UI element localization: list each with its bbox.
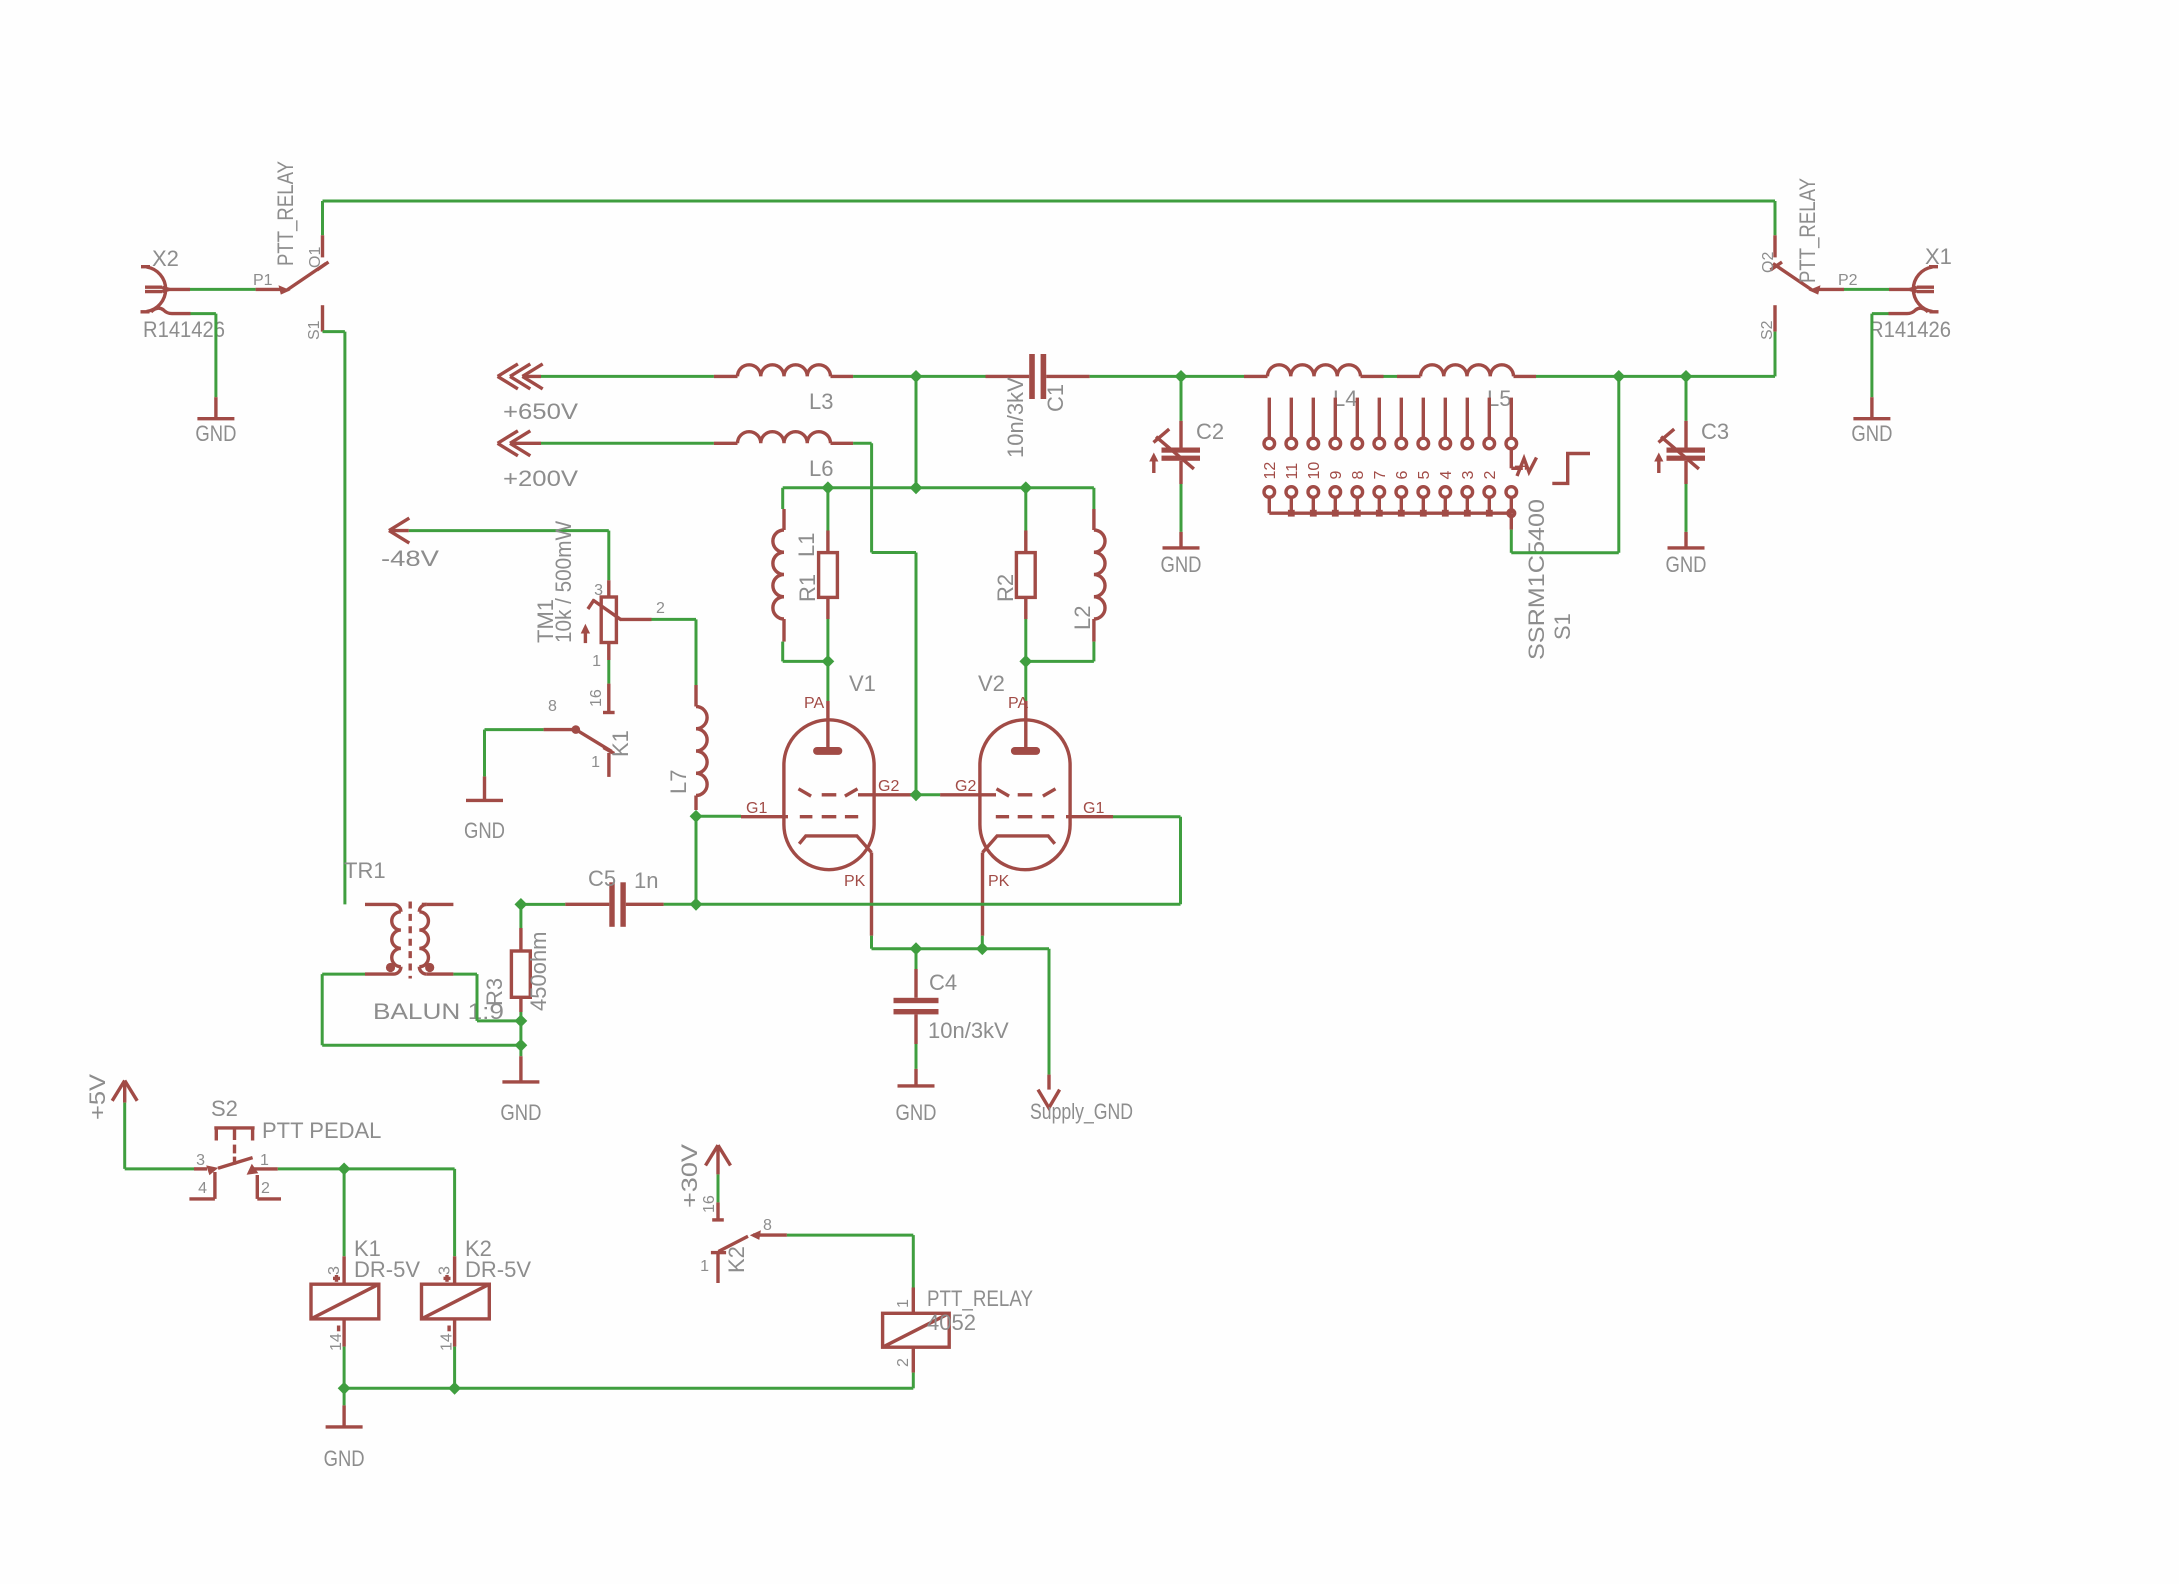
svg-text:10n/3kV: 10n/3kV — [928, 1018, 1009, 1043]
svg-text:GND: GND — [1666, 552, 1707, 577]
svg-text:14: 14 — [328, 1333, 345, 1351]
label +650V — [503, 399, 578, 424]
svg-text:TR1: TR1 — [344, 858, 386, 883]
svg-text:GND: GND — [464, 818, 505, 843]
wire PK net — [872, 936, 1050, 1075]
label TM1 pin 2 — [656, 600, 665, 617]
label V2 pin G2 — [955, 778, 976, 795]
svg-text:10: 10 — [1306, 462, 1323, 480]
label K1 coil — [354, 1236, 381, 1261]
svg-text:12: 12 — [1262, 462, 1279, 480]
svg-text:+30V: +30V — [677, 1144, 702, 1208]
relay coil K1 (DR-5V) — [311, 1256, 379, 1346]
rotary switch S1 (SSRM1C5400) — [1264, 398, 1590, 530]
relay coil K2 (DR-5V) — [422, 1256, 490, 1346]
label V1 pin G1 — [746, 800, 767, 817]
label K1 coil pin 3 — [326, 1266, 343, 1275]
relay contact PTT_RELAY left (O1/P1/S1) — [256, 235, 329, 331]
svg-text:R3: R3 — [482, 978, 507, 1006]
label PTT_RELAY right — [1795, 178, 1820, 283]
label L4 — [1333, 386, 1357, 411]
svg-text:8: 8 — [763, 1217, 772, 1234]
label 4052 pin 2 — [895, 1358, 912, 1367]
junction PK-V2 — [976, 942, 989, 955]
wire rail seg2 — [853, 375, 985, 378]
ground GND (X1) — [1853, 397, 1890, 419]
svg-text:DR-5V: DR-5V — [465, 1257, 531, 1282]
label V1 pin PK — [844, 873, 866, 890]
ground GND (C2) — [1163, 532, 1200, 548]
label K1 coil pin 14 — [328, 1333, 345, 1351]
label GND (relay bus) — [324, 1446, 365, 1471]
transformer TR1 — [365, 902, 453, 979]
svg-text:P2: P2 — [1838, 272, 1858, 289]
svg-text:14: 14 — [439, 1333, 456, 1351]
capacitor C2 (trimmer) — [1149, 376, 1200, 532]
label S1 pin 2 — [1482, 471, 1499, 480]
capacitor C3 (trimmer) — [1654, 376, 1705, 532]
svg-text:C3: C3 — [1701, 419, 1729, 444]
svg-text:PK: PK — [988, 873, 1010, 890]
svg-text:4: 4 — [1438, 471, 1455, 480]
svg-text:S1: S1 — [1550, 613, 1575, 640]
svg-text:PTT_RELAY: PTT_RELAY — [273, 161, 298, 266]
wire coil bottoms to bus — [344, 1347, 913, 1406]
label X2 name — [152, 246, 179, 271]
relay coil PTT_RELAY (4052) — [883, 1288, 950, 1373]
wire S2 to relay coils — [278, 1169, 455, 1256]
svg-text:1: 1 — [260, 1152, 269, 1169]
svg-text:C5: C5 — [588, 866, 616, 891]
svg-text:PA: PA — [1008, 695, 1028, 712]
label S1 pin 6 — [1394, 471, 1411, 480]
svg-text:1n: 1n — [634, 868, 658, 893]
label S1 pin 1 — [1513, 462, 1530, 471]
svg-text:8: 8 — [548, 698, 557, 715]
label S1 pin — [306, 320, 323, 340]
svg-text:X2: X2 — [152, 246, 179, 271]
relay contact K1 — [544, 725, 615, 777]
label PTT_RELAY coil — [927, 1286, 1033, 1311]
label K1 pin 1 — [591, 754, 600, 771]
wire S2 down to rail — [1774, 332, 1777, 377]
label P1 — [253, 272, 273, 289]
label R2 — [993, 574, 1018, 602]
label GND (C3) — [1666, 552, 1707, 577]
label TR1 value BALUN 1:9 — [373, 999, 504, 1024]
inductor L6 — [714, 432, 853, 444]
label K2 coil value DR-5V — [465, 1257, 531, 1282]
svg-text:16: 16 — [701, 1195, 718, 1213]
label C2 — [1196, 419, 1224, 444]
ground GND (X2) — [197, 397, 234, 419]
inductor L7 — [696, 685, 707, 810]
connector X2 — [141, 267, 191, 314]
wire TR1 secondary bottom-left — [322, 974, 521, 1045]
svg-text:L7: L7 — [666, 770, 691, 794]
junction G1-C5 — [690, 898, 703, 911]
switch S2 (PTT PEDAL) — [189, 1128, 281, 1199]
junction rail-C2 — [1175, 370, 1188, 383]
svg-text:L3: L3 — [809, 389, 833, 414]
junction midrail-R1 — [822, 481, 835, 494]
svg-text:C4: C4 — [929, 970, 957, 995]
wire rail seg3 — [1090, 375, 1244, 378]
label V1 — [849, 671, 876, 696]
junction G2 — [910, 788, 923, 801]
junction rail-S1 — [1612, 370, 1625, 383]
svg-text:S2: S2 — [211, 1096, 238, 1121]
wire K2 to 4052 coil — [787, 1235, 913, 1287]
capacitor C5 — [565, 882, 663, 927]
inductor L2 — [1094, 509, 1105, 642]
svg-text:K2: K2 — [724, 1246, 749, 1273]
inductor L3 — [714, 365, 853, 377]
label K2 coil pin 3 — [437, 1266, 454, 1275]
label S2 pin 2 — [261, 1180, 270, 1197]
svg-text:S2: S2 — [1759, 320, 1776, 340]
potentiometer TM1 — [581, 580, 652, 660]
label GND (K1) — [464, 818, 505, 843]
wire S1 common to rail — [1511, 376, 1619, 552]
junction tankbot-V2 — [1019, 655, 1032, 668]
inductor L1 — [773, 509, 784, 642]
junction bus-K2 — [448, 1382, 461, 1395]
junction rail-C3 — [1680, 370, 1693, 383]
svg-text:9: 9 — [1328, 471, 1345, 480]
label GND (X1) — [1851, 421, 1892, 446]
label TM1 — [533, 599, 558, 643]
wire +5V to S2 — [125, 1103, 194, 1169]
svg-text:450ohm: 450ohm — [526, 931, 551, 1011]
svg-text:Supply_GND: Supply_GND — [1030, 1099, 1133, 1124]
svg-text:P1: P1 — [253, 272, 273, 289]
wire L6 to G2 — [853, 443, 916, 795]
junction bus-K1 — [338, 1382, 351, 1395]
svg-text:GND: GND — [195, 421, 236, 446]
svg-text:GND: GND — [1161, 552, 1202, 577]
svg-text:K1: K1 — [608, 730, 633, 757]
svg-text:1: 1 — [700, 1258, 709, 1275]
label +200V — [503, 466, 578, 491]
label R3 — [482, 978, 507, 1006]
label S2 pin 3 — [196, 1152, 205, 1169]
supply +650V — [498, 364, 543, 389]
label PTT_RELAY left — [273, 161, 298, 266]
label V2 — [978, 671, 1005, 696]
ground GND (C4) — [898, 1069, 935, 1086]
label C1 — [1043, 384, 1068, 412]
label S1 pin 12 — [1262, 462, 1279, 480]
label L7 — [666, 770, 691, 794]
relay K1 pin 16 stub — [603, 684, 615, 713]
label L2 — [1070, 606, 1095, 630]
svg-text:SSRM1C5400: SSRM1C5400 — [1524, 499, 1549, 660]
label S1 pin 7 — [1372, 471, 1389, 480]
label S2 pin 4 — [198, 1180, 207, 1197]
relay K2 pin 16 stub — [712, 1202, 724, 1220]
wire TM1 pin1 to K1 pin16 — [607, 660, 610, 684]
label L1 — [794, 533, 819, 557]
wire TR1 secondary bottom-right — [453, 974, 521, 1021]
resistor R1 — [819, 531, 838, 620]
label S1 pin 3 — [1460, 471, 1477, 480]
svg-text:R1: R1 — [795, 574, 820, 602]
label V1 pin G2 — [878, 778, 899, 795]
wire G1 net — [664, 816, 1181, 904]
svg-text:3: 3 — [326, 1266, 343, 1275]
wire X2 signal — [190, 288, 256, 291]
junction R3-bottom — [515, 1015, 528, 1028]
svg-text:G1: G1 — [746, 800, 767, 817]
label S2 pin — [1759, 320, 1776, 340]
wire rail seg5 — [1536, 375, 1775, 378]
svg-text:R141426: R141426 — [1869, 317, 1951, 342]
label L5 — [1487, 386, 1511, 411]
label S1 pin 10 — [1306, 462, 1323, 480]
ground GND (K1) — [466, 776, 503, 800]
supply +200V — [498, 431, 541, 456]
label TR1 — [344, 858, 386, 883]
label +30V — [677, 1144, 702, 1208]
svg-text:10k / 500mW: 10k / 500mW — [551, 521, 576, 643]
label 4052 — [927, 1310, 976, 1335]
wire +650V rail seg1 — [541, 375, 714, 378]
label C5 value 1n — [634, 868, 658, 893]
label C4 — [929, 970, 957, 995]
svg-text:3: 3 — [1460, 471, 1477, 480]
label C4 value 10n/3kV — [928, 1018, 1009, 1043]
svg-text:S1: S1 — [306, 320, 323, 340]
svg-text:1: 1 — [592, 653, 601, 670]
wire G2 net — [914, 793, 940, 796]
wire S1 to TR1 — [323, 332, 345, 905]
label TM1 value — [551, 521, 576, 643]
ground GND (relay bus) — [326, 1405, 363, 1427]
svg-text:C1: C1 — [1043, 384, 1068, 412]
supply +5V — [112, 1081, 137, 1103]
label PTT PEDAL — [262, 1118, 381, 1143]
capacitor C1 — [986, 354, 1090, 399]
label V2 pin PK — [988, 873, 1010, 890]
label S2 — [211, 1096, 238, 1121]
svg-text:11: 11 — [1284, 463, 1301, 480]
label R3 value 450ohm — [526, 931, 551, 1011]
svg-text:DR-5V: DR-5V — [354, 1257, 420, 1282]
supply -48V — [389, 518, 409, 543]
svg-text:3: 3 — [437, 1266, 454, 1275]
svg-text:R141426: R141426 — [143, 317, 225, 342]
svg-text:PTT_RELAY: PTT_RELAY — [1795, 178, 1820, 283]
relay contact K2 — [711, 1230, 787, 1283]
label S1 pin 5 — [1416, 471, 1433, 480]
svg-text:4052: 4052 — [927, 1310, 976, 1335]
label K1 coil value DR-5V — [354, 1257, 420, 1282]
svg-text:L6: L6 — [809, 456, 833, 481]
junction PK-C4 — [910, 942, 923, 955]
junction R3-gnd — [515, 1039, 528, 1052]
wire +200V seg — [541, 442, 714, 445]
wire rail seg4 — [1384, 375, 1398, 378]
label X1 name — [1925, 244, 1952, 269]
label C5 — [588, 866, 616, 891]
svg-text:L1: L1 — [794, 533, 819, 557]
label K2 pin 1 — [700, 1258, 709, 1275]
svg-text:C2: C2 — [1196, 419, 1224, 444]
svg-text:PTT_RELAY: PTT_RELAY — [927, 1286, 1033, 1311]
label V2 pin G1 — [1083, 800, 1104, 817]
wire C4 to gnd — [915, 1044, 918, 1069]
relay contact PTT_RELAY right (O2/P2/S2) — [1771, 235, 1845, 331]
label S1 pin 11 — [1284, 463, 1301, 480]
connector X1 — [1889, 267, 1939, 314]
junction tankbot-V1 — [822, 655, 835, 668]
svg-text:PA: PA — [804, 695, 824, 712]
tube V2 — [940, 701, 1113, 936]
inductor L4 — [1244, 365, 1384, 377]
label K2 coil — [465, 1236, 492, 1261]
svg-text:G2: G2 — [878, 778, 899, 795]
wire 4052 to bus — [912, 1373, 915, 1389]
label V1 pin PA — [804, 695, 824, 712]
label S1 pin 8 — [1350, 471, 1367, 480]
wire TM1 to L7 — [652, 619, 697, 685]
svg-text:8: 8 — [1350, 471, 1367, 480]
svg-text:+650V: +650V — [503, 399, 578, 424]
label GND (X2) — [195, 421, 236, 446]
resistor R3 — [511, 904, 530, 1056]
svg-text:7: 7 — [1372, 471, 1389, 480]
wire TR1 to C5 — [521, 903, 565, 906]
label GND (C4) — [896, 1100, 937, 1125]
svg-text:GND: GND — [1851, 421, 1892, 446]
svg-text:+5V: +5V — [85, 1074, 110, 1120]
label K1 pin 16 — [588, 689, 605, 707]
wire branch to mid rail — [915, 376, 918, 487]
label O1 — [307, 247, 324, 268]
label GND (C2) — [1161, 552, 1202, 577]
svg-text:G2: G2 — [955, 778, 976, 795]
svg-text:O2: O2 — [1760, 252, 1777, 273]
svg-text:X1: X1 — [1925, 244, 1952, 269]
ground GND (C3) — [1668, 532, 1705, 548]
wire gnd to K1 pin8 — [485, 730, 544, 777]
label C1 value 10n/3kV — [1003, 377, 1028, 458]
supply +30V — [706, 1145, 731, 1174]
wire anode tank bottom rail — [783, 619, 1094, 701]
label S1 value SSRM1C5400 — [1524, 499, 1549, 660]
svg-text:GND: GND — [896, 1100, 937, 1125]
label Supply_GND — [1030, 1099, 1133, 1124]
junction L7-G1 — [690, 810, 703, 823]
label K1 pin 8 — [548, 698, 557, 715]
label L3 — [809, 389, 833, 414]
svg-text:GND: GND — [500, 1100, 541, 1125]
label P2 — [1838, 272, 1858, 289]
svg-text:V1: V1 — [849, 671, 876, 696]
label V2 pin PA — [1008, 695, 1028, 712]
label S1 pin 9 — [1328, 471, 1345, 480]
svg-text:4: 4 — [198, 1180, 207, 1197]
svg-text:2: 2 — [1482, 471, 1499, 480]
label K1 contact — [608, 730, 633, 757]
label S1 pin 4 — [1438, 471, 1455, 480]
svg-text:2: 2 — [261, 1180, 270, 1197]
svg-text:V2: V2 — [978, 671, 1005, 696]
label +5V — [85, 1074, 110, 1120]
svg-text:G1: G1 — [1083, 800, 1104, 817]
svg-text:R2: R2 — [993, 574, 1018, 602]
svg-text:-48V: -48V — [381, 546, 439, 571]
label TM1 pin 1 — [592, 653, 601, 670]
svg-text:GND: GND — [324, 1446, 365, 1471]
junction rail-C1branch — [910, 370, 923, 383]
K1 coil polarity mark — [333, 1275, 340, 1331]
junction S2-K1 — [338, 1163, 351, 1176]
label L6 — [809, 456, 833, 481]
wire X2 shield to gnd — [191, 314, 216, 398]
label X2 value — [143, 317, 225, 342]
label O2 — [1760, 252, 1777, 273]
wire X1 signal — [1844, 288, 1889, 291]
inductor L5 — [1397, 365, 1536, 377]
supply ground Supply_GND — [1038, 1075, 1060, 1108]
label S1 name — [1550, 613, 1575, 640]
label K2 contact — [724, 1246, 749, 1273]
tube V1 — [741, 701, 914, 936]
svg-text:1: 1 — [895, 1299, 912, 1308]
label X1 value — [1869, 317, 1951, 342]
K2 coil polarity mark — [444, 1275, 451, 1331]
capacitor C4 — [894, 969, 939, 1044]
svg-text:O1: O1 — [307, 247, 324, 268]
svg-text:PK: PK — [844, 873, 866, 890]
svg-text:L2: L2 — [1070, 606, 1095, 630]
svg-text:6: 6 — [1394, 471, 1411, 480]
svg-text:3: 3 — [594, 582, 603, 599]
svg-text:1: 1 — [591, 754, 600, 771]
svg-text:5: 5 — [1416, 471, 1433, 480]
svg-text:3: 3 — [196, 1152, 205, 1169]
label R1 — [795, 574, 820, 602]
label TM1 pin 3 — [594, 582, 603, 599]
label S2 pin 1 — [260, 1152, 269, 1169]
svg-text:2: 2 — [656, 600, 665, 617]
wire -48V to TM1 — [409, 531, 609, 581]
svg-text:+200V: +200V — [503, 466, 578, 491]
label -48V — [381, 546, 439, 571]
junction midrail-R2 — [1019, 481, 1032, 494]
wire top PTT net — [323, 201, 1776, 235]
label K2 pin 8 — [763, 1217, 772, 1234]
label K2 pin 16 — [701, 1195, 718, 1213]
svg-text:2: 2 — [895, 1358, 912, 1367]
ground GND (R3) — [502, 1056, 539, 1082]
junction TR1-C5-R3 — [515, 898, 528, 911]
svg-text:PTT PEDAL: PTT PEDAL — [262, 1118, 381, 1143]
label 4052 pin 1 — [895, 1299, 912, 1308]
junction midrail-branch — [910, 481, 923, 494]
wire anode tank top rail — [783, 488, 1094, 531]
svg-text:10n/3kV: 10n/3kV — [1003, 377, 1028, 458]
wire +30V to K2 pin16 — [717, 1174, 720, 1202]
wire X1 shield to gnd — [1872, 314, 1889, 398]
svg-text:16: 16 — [588, 689, 605, 707]
label C3 — [1701, 419, 1729, 444]
label GND (R3) — [500, 1100, 541, 1125]
resistor R2 — [1016, 531, 1035, 620]
label K2 coil pin 14 — [439, 1333, 456, 1351]
